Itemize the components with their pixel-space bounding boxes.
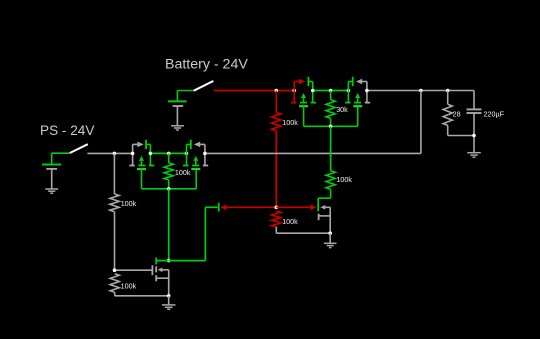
transistor M4 (p-MOSFET, left pair right, mirrored) [183,140,208,169]
node (PS bus / R6 junction) [113,152,117,156]
resistor R1 100k (red, from battery rail down) [272,91,281,208]
resistor R6 100k (left upper) [110,153,119,270]
svg-text:100k: 100k [121,281,137,290]
node (R6 bottom / R7 top / M5 gate junction) [113,268,117,272]
resistor R8 28 ohm load [443,91,474,136]
svg-text:100k: 100k [175,168,191,177]
wire (gate line of top pair) [304,106,358,126]
wire (V2 to switch SW2) [52,152,70,154]
ground (below M6) [324,243,337,247]
resistor R2 30k (green, rail to gate line) [326,91,335,127]
wire (top output bus, M2 drain to right) [367,90,474,92]
node (bottom rail / M5 junction) [167,294,171,298]
node (M4 source) [185,152,189,156]
transistor M2 (p-MOSFET, top pair right, mirrored) [345,77,370,106]
svg-text:220µF: 220µF [484,110,505,119]
wire (gate node down to R4, crosses output bus) [330,126,332,170]
node (drive node junction) [167,259,171,263]
node (red line / R1 / R5 junction) [275,206,279,210]
wire (green rail between M3 and M4 sources) [150,152,186,154]
node (M4 drain on bus) [203,152,207,156]
svg-text:100k: 100k [282,217,298,226]
node (M2 drain) [365,89,369,93]
node (M1 drain on red rail) [292,89,296,93]
svg-text:100k: 100k [336,175,352,184]
transistor M1 (p-MOSFET, top pair left) [291,77,316,106]
node (junction red rail / R1) [275,89,279,93]
svg-text:PS - 24V: PS - 24V [40,123,94,138]
node (R3 tap) [167,152,171,156]
node (M2 source on green rail) [347,89,351,93]
battery V2 (PS 24V source) [42,153,61,189]
wire (junction down to ground) [168,296,170,305]
svg-text:Battery - 24V: Battery - 24V [165,56,248,72]
ground (below M5 rail) [162,305,176,309]
wire (drive node right and up to gate diode line) [169,207,218,260]
wire (M5 source to drive node) [156,260,169,262]
transistor M5 (MOSFET left lower) [115,258,169,296]
node (bus / R8 junction) [446,89,450,93]
svg-text:100k: 100k [121,199,137,208]
ground (below battery V1) [171,126,184,130]
wire (battery V1 to switch SW1) [177,90,194,92]
transistor M3 (p-MOSFET, left pair left) [129,140,154,169]
resistor R3 100k (green, left pair middle) [164,153,173,188]
transistor M6 (MOSFET right lower, diode-connected) [319,205,331,233]
wire (right bus down to PS bus) [420,91,422,154]
svg-text:100k: 100k [282,118,298,127]
node (M3 source) [149,152,153,156]
wire (gate node down to drive node) [168,189,170,261]
diode D2 (red line to M6 gate node, cathode right) [311,204,319,211]
node (bus / down-wire junction) [419,89,423,93]
wire (red battery rail to M1 drain) [214,90,294,92]
wire (junction down to ground) [329,233,331,243]
wire (gate line of left pair) [142,169,197,189]
svg-text:28: 28 [453,109,461,118]
ground (below battery V2) [45,189,58,193]
node (C1 bottom / R8 bottom) [472,134,476,138]
capacitor C1 220uF [467,91,482,153]
switch SW2 (PS switch, open) [70,144,88,153]
node (top pair gate line center) [329,125,333,129]
svg-text:30k: 30k [336,105,348,114]
node (left pair gate line center) [167,187,171,191]
wire (crossing green over bus, redraw) [330,150,332,157]
diode D1 (red line to drive node, cathode left) [219,203,277,212]
ground (below C1) [467,153,481,158]
node (M1 source on green rail) [311,89,315,93]
wire (PS gray bus to M3 drain) [87,152,132,154]
node (30k tap on green rail) [329,89,333,93]
resistor R5 100k (red, middle pull-down) [272,211,331,233]
resistor R7 100k (left lower) [110,274,169,296]
wire (red line to D2) [276,206,310,208]
switch SW1 (battery switch, open) [194,81,214,91]
node (M3 drain on PS bus) [131,152,135,156]
node (M6 / R5 ground rail junction) [328,231,332,235]
wire (PS output bus, M4 drain to right riser) [205,152,421,154]
resistor R4 100k (green, right middle) [318,171,335,204]
battery V1 (Battery 24V source) [168,91,187,126]
wire (green rail between M1 and M2 sources) [313,90,349,92]
